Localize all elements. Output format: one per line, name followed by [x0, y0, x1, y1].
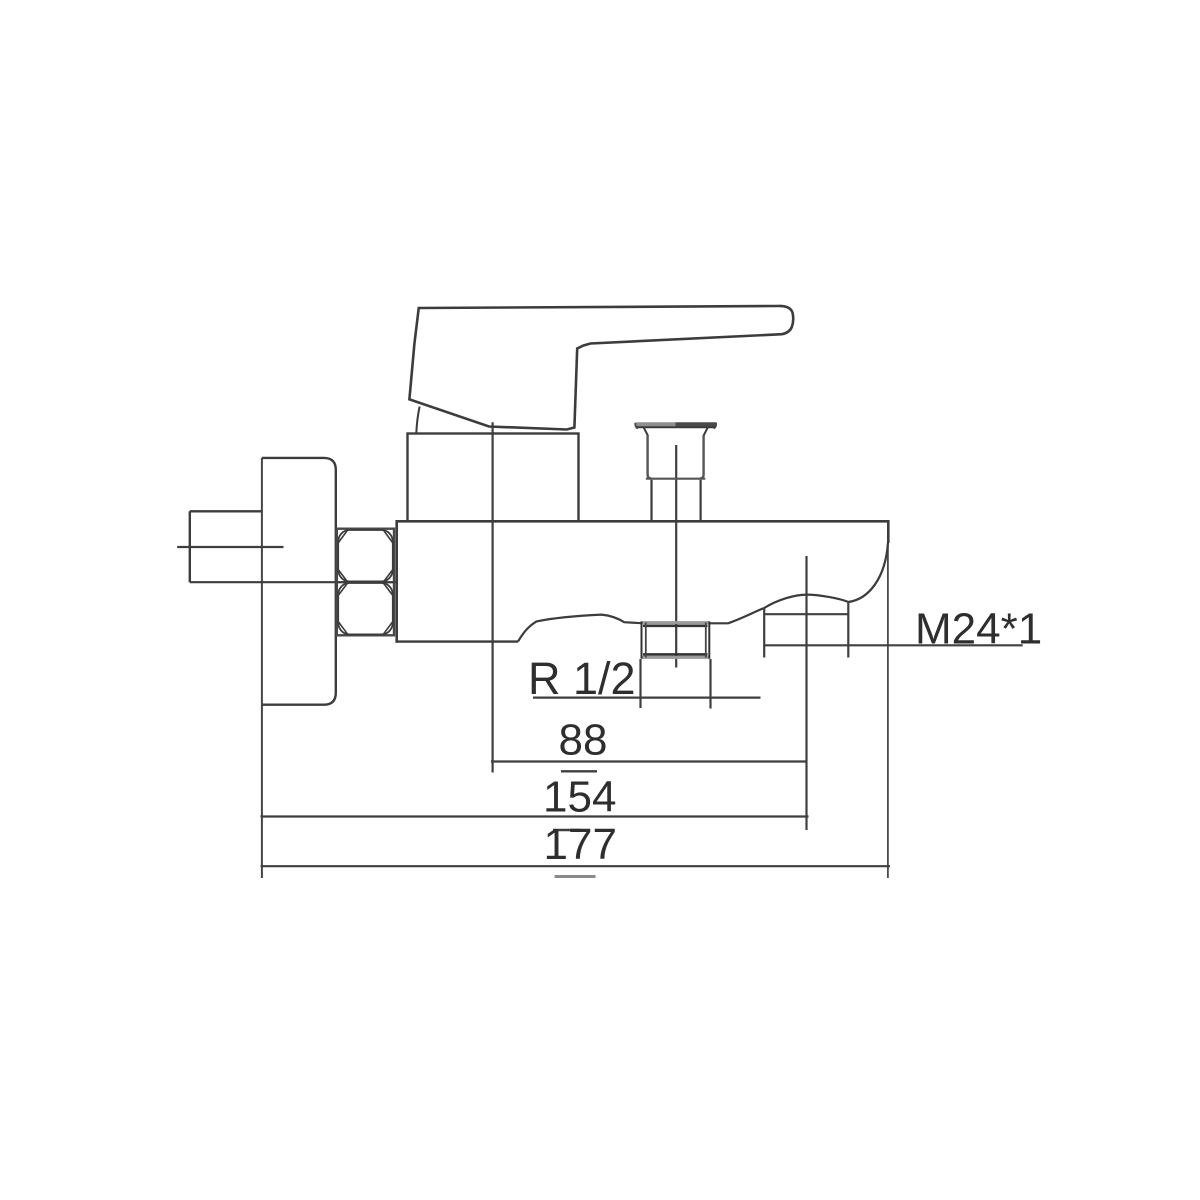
mixer body left edge [395, 520, 398, 643]
svg-text:88: 88 [559, 716, 608, 765]
spout thread R 1/2 outlet [641, 622, 710, 659]
shower outlet hump [764, 595, 848, 608]
label 154 [543, 773, 616, 822]
dimension line 154 [261, 815, 809, 817]
macron over 1 of 177 [553, 829, 581, 832]
spout centerline [675, 445, 677, 668]
body right fillet curve [849, 543, 889, 603]
pipe bottom / nut mid line [190, 581, 397, 583]
mixer body top edge [397, 520, 889, 523]
dimension line 177 [261, 865, 891, 867]
shower thread extension line left [763, 608, 765, 658]
right extension line (body edge down to dims) [887, 543, 889, 878]
shower outlet centerline [805, 556, 807, 830]
M24*1 leader line [764, 644, 1023, 646]
inlet centerline [177, 546, 283, 548]
inlet pipe [190, 511, 262, 582]
hex nut [337, 529, 394, 636]
mixer body bottom-left edge [396, 640, 519, 642]
svg-text:R 1/2: R 1/2 [528, 653, 636, 704]
mixer body right edge [887, 520, 890, 543]
wall flange [262, 458, 336, 705]
svg-text:154: 154 [543, 773, 616, 822]
diverter knob cap [635, 422, 717, 436]
shower thread extension line right [847, 602, 849, 658]
shower thread top line [764, 613, 848, 615]
cartridge base [408, 434, 579, 522]
label 88 [559, 716, 608, 765]
R1/2 extension line left [639, 659, 641, 708]
R1/2 extension line right [709, 659, 711, 709]
svg-text:M24*1: M24*1 [915, 605, 1042, 654]
label M24*1 [915, 605, 1042, 654]
diverter knob cup [646, 436, 705, 479]
cartridge centerline [492, 422, 494, 772]
dimension line 88 [491, 760, 807, 762]
label 177 [544, 820, 617, 869]
handle lever [409, 306, 793, 430]
break mark under 177 [555, 875, 596, 878]
handle skirt overlap line [416, 407, 419, 434]
label R 1/2 [528, 653, 636, 704]
body bottom profile right of spout [710, 608, 765, 623]
diverter knob stem [652, 480, 701, 521]
left extension line (flange edge down to dims) [261, 458, 263, 878]
body bottom profile left (rise and plateau) [518, 615, 642, 642]
svg-text:177: 177 [544, 820, 617, 869]
R1/2 leader line [533, 696, 761, 698]
macron over 5 of 154 [561, 770, 597, 772]
